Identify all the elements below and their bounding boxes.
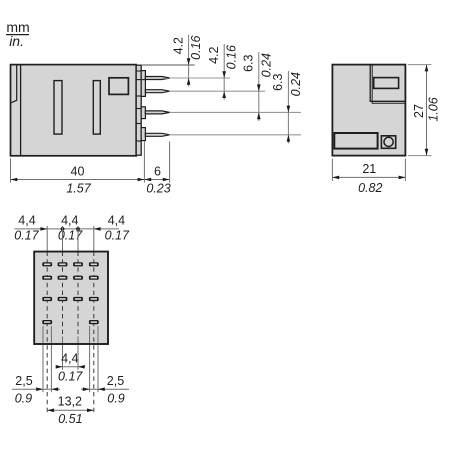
view1 left clip lines — [11, 65, 21, 156]
view3 pin slot r3 c2 — [58, 297, 68, 301]
view2 latch square — [381, 136, 395, 149]
svg-text:4.2: 4.2 — [171, 37, 185, 54]
dimension 6.3/0.24 (pin2-pin3) — [258, 52, 260, 121]
view2 witness line right — [404, 159, 406, 181]
view3 col2/col3 witness below body — [63, 337, 79, 370]
view3 pin slot r1 c1 — [42, 262, 52, 266]
dimension 2,5/0.9 left — [12, 374, 60, 405]
dimension 6.3/0.24 (pin3-pin4) — [287, 71, 289, 143]
view3 pin slot r1 c4 — [89, 262, 99, 266]
svg-text:0.17: 0.17 — [105, 229, 130, 243]
dimension 4.2/0.16 (top-pin1) — [188, 35, 190, 87]
view1 pin 2 — [145, 90, 169, 93]
dimension 27/1.06 — [412, 65, 441, 156]
view2 extension line top (gray) — [408, 64, 432, 66]
svg-text:21: 21 — [362, 162, 376, 176]
dimension 4.2/0.16 (pin1-pin2) — [223, 44, 225, 100]
view2 extension line bottom (gray) — [408, 155, 432, 157]
view3 body outline re-stroke — [34, 252, 108, 344]
svg-text:1.06: 1.06 — [427, 97, 441, 121]
view3 centerline col1 — [46, 252, 48, 414]
svg-text:6.3: 6.3 — [242, 54, 256, 71]
view3 pin slot r2 c4 — [89, 276, 99, 280]
dimension 6/0.23 line — [144, 164, 170, 195]
svg-text:40: 40 — [71, 164, 85, 178]
svg-text:2,5: 2,5 — [107, 374, 124, 388]
svg-text:4,4: 4,4 — [18, 214, 35, 228]
svg-text:2,5: 2,5 — [15, 374, 32, 388]
view3 pin slot r3 c3 — [73, 297, 83, 301]
view3 pin slot r1 c2 — [58, 262, 68, 266]
dimension 40/1.57 line — [11, 164, 145, 195]
svg-text:0.9: 0.9 — [107, 391, 124, 405]
view1 extension line pin2 — [170, 90, 265, 92]
svg-text:0.9: 0.9 — [15, 391, 32, 405]
dimension 13,2/0.51 — [47, 395, 94, 427]
view3 relay body (underside) — [34, 252, 108, 344]
svg-text:27: 27 — [412, 104, 426, 118]
view3 pin slot r3 c1 — [42, 297, 52, 301]
dimension 2,5/0.9 right — [81, 374, 129, 405]
dimension 21/0.82 — [332, 162, 405, 195]
svg-text:0.82: 0.82 — [358, 181, 382, 195]
view1 extension line pin1 — [170, 77, 230, 79]
view1 witness line pin tip — [169, 142, 171, 183]
svg-text:13,2: 13,2 — [58, 395, 82, 409]
view1 extension line from body top edge — [142, 64, 195, 66]
view2 latch circle — [384, 137, 393, 146]
svg-text:in.: in. — [9, 33, 24, 49]
view3 pin slot r4 c1 — [42, 320, 52, 324]
svg-text:6: 6 — [154, 164, 161, 178]
svg-text:0.16: 0.16 — [225, 45, 239, 69]
svg-text:0.16: 0.16 — [189, 35, 203, 59]
svg-text:0.17: 0.17 — [58, 229, 83, 243]
view1 slot 1 — [54, 81, 62, 135]
view2 witness line left — [331, 159, 333, 181]
view3 centerline col2 — [62, 252, 64, 336]
dimension 4,4/0.17 bottom middle — [56, 351, 85, 383]
svg-text:4,4: 4,4 — [61, 351, 78, 365]
svg-text:0.51: 0.51 — [58, 412, 82, 426]
svg-text:0.24: 0.24 — [289, 72, 303, 96]
svg-text:0.17: 0.17 — [14, 229, 39, 243]
view1 relay body (side view) — [11, 65, 137, 156]
svg-text:1.57: 1.57 — [66, 182, 91, 196]
view3 pin slot r3 c4 — [89, 297, 99, 301]
view1 pin 4 — [145, 133, 169, 136]
view2 bottom label recess — [334, 133, 377, 149]
view3 pin slot r2 c1 — [42, 276, 52, 280]
view1 extension line pin3 — [170, 111, 301, 113]
view2 relay body (rear view) — [332, 65, 405, 156]
svg-text:6.3: 6.3 — [271, 73, 285, 90]
view1 witness line left — [10, 158, 12, 182]
view3 slot edge witness lines col1 — [43, 326, 51, 392]
svg-text:0.23: 0.23 — [146, 182, 170, 196]
svg-text:0.17: 0.17 — [58, 369, 83, 383]
units label mm/in — [6, 19, 30, 49]
view2 marker window — [374, 78, 399, 89]
view3 pin slot r2 c2 — [58, 276, 68, 280]
view1 witness line flange — [143, 142, 145, 183]
svg-text:4.2: 4.2 — [207, 46, 221, 63]
view1 pin collars — [141, 71, 145, 141]
view1 rear flange strip — [136, 65, 141, 155]
view2 top-right panel lines — [370, 65, 405, 104]
view3 witness lines above body — [47, 226, 94, 252]
view3 pin slot r1 c3 — [73, 262, 83, 266]
view1 pin 1 — [145, 77, 169, 80]
view3 pin slot r2 c3 — [73, 276, 83, 280]
view3 centerline col4 — [93, 252, 95, 414]
view3 centerline col3 — [77, 252, 79, 336]
view1 pin 3 — [145, 111, 169, 114]
view3 pin slot r4 c4 — [89, 320, 99, 324]
view3 top pitch dim line 4,4 x3 — [14, 214, 130, 243]
view1 slot 2 — [93, 81, 100, 135]
svg-text:4,4: 4,4 — [108, 214, 125, 228]
view1 extension line pin4 — [170, 134, 301, 136]
view1 small square detail — [109, 78, 128, 95]
view3 slot edge witness lines col4 — [90, 326, 98, 392]
svg-text:4,4: 4,4 — [61, 214, 78, 228]
